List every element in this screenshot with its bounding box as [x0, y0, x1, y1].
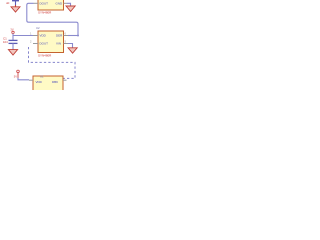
U2 right pin stub (row1): [64, 35, 69, 37]
wire U1.GND to ground: [67, 3, 71, 6]
U2 right pin stub (row2): [64, 43, 69, 45]
U3 right pin stub: [63, 79, 67, 81]
svg-text:VIN: VIN: [56, 42, 61, 46]
svg-text:DOUT: DOUT: [40, 2, 49, 6]
wire U2 right row2 to ground: [68, 44, 73, 48]
U2 left pin 1 stub: [33, 35, 38, 37]
svg-text:VDD: VDD: [40, 34, 47, 38]
U2 left pin 2 stub: [33, 43, 38, 45]
wire stub into VDD arrow: [12, 0, 19, 5]
dashed section boundary: [29, 47, 76, 78]
IC U2 body: [38, 31, 64, 53]
U1 right pin stub: [64, 2, 68, 4]
svg-text:SYN480R: SYN480R: [38, 11, 52, 15]
junction dot: [77, 35, 79, 37]
ground symbol (top right): [66, 6, 75, 11]
power arrow VDD (down): [11, 5, 20, 12]
svg-text:104: 104: [3, 40, 8, 44]
svg-text:GND: GND: [56, 2, 64, 6]
IC U3 body (cropped at bottom): [33, 76, 63, 94]
svg-text:U1: U1: [40, 74, 44, 78]
svg-text:5V: 5V: [14, 75, 17, 79]
IC U1 body (cropped at top): [38, 0, 64, 10]
svg-text:SYN480R: SYN480R: [38, 53, 52, 57]
svg-text:U2: U2: [36, 26, 40, 30]
ground symbol (middle right): [68, 48, 77, 53]
U3 left pin stub: [29, 79, 33, 81]
wire C1 top to U2 pin 1: [13, 35, 33, 37]
power port 5V symbol: [17, 70, 20, 78]
ground symbol (below C1): [8, 50, 17, 55]
wire loop from U1.DOUT around left and bottom to U2 right pin: [27, 3, 78, 35]
wire power circle down to capacitor C1: [12, 34, 14, 41]
wire 5V to U3 pin: [18, 78, 29, 80]
wire U2 right row1 to loop junction: [68, 35, 78, 37]
svg-text:DER: DER: [56, 34, 63, 38]
svg-text:DBK: DBK: [52, 80, 58, 84]
svg-text:VDD: VDD: [36, 80, 43, 84]
svg-text:2: 2: [30, 40, 32, 44]
U1 left pin stub: [34, 2, 39, 4]
power port circle: [12, 31, 14, 33]
capacitor C1 plates: [9, 40, 18, 43]
svg-text:DOUT: DOUT: [40, 42, 49, 46]
svg-text:dd: dd: [6, 1, 10, 5]
wire C1 bottom to ground: [12, 43, 14, 49]
